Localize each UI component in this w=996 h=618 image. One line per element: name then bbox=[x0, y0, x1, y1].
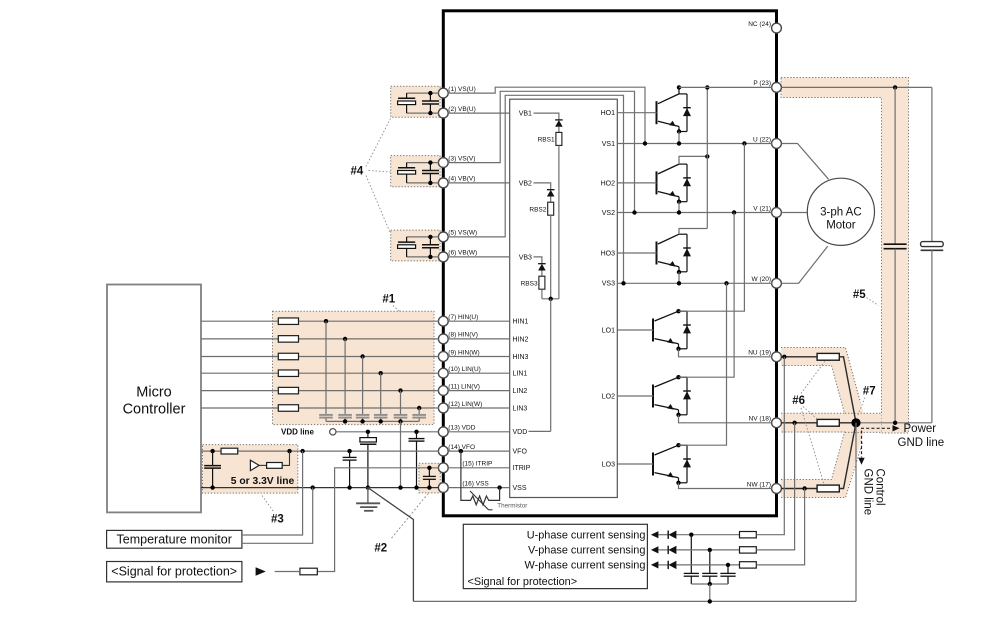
node VDD cap A tap bbox=[366, 430, 370, 434]
node GND rail junction bbox=[708, 599, 712, 603]
capacitor V sense filter bbox=[709, 550, 711, 574]
bootstrap diode D1 bbox=[555, 119, 563, 121]
svg-text:LO3: LO3 bbox=[602, 461, 615, 468]
IGBT emitter lead bbox=[678, 197, 680, 202]
svg-text:LO2: LO2 bbox=[602, 393, 615, 400]
node cap bus junction bbox=[343, 419, 347, 423]
wire VB1 to bootstrap diode bbox=[534, 113, 559, 120]
resistor shunt RV bbox=[817, 419, 839, 426]
wire VS(U) routing pin1 to VS1 bbox=[448, 87, 645, 143]
pin 12 LIN(W) bbox=[438, 403, 448, 413]
resistor R8 (VFO pull-up) bbox=[221, 448, 238, 454]
node W filter tap bbox=[726, 563, 730, 567]
svg-text:HIN3: HIN3 bbox=[513, 354, 529, 361]
node VSS cap C bbox=[347, 485, 351, 489]
IGBT collector stroke bbox=[655, 377, 679, 387]
freewheel diode bbox=[679, 310, 688, 312]
capacitor VFO filter CC bbox=[349, 451, 351, 457]
wire buffer to R9 bbox=[259, 464, 267, 466]
capacitor ceramic bootstrap bbox=[429, 93, 431, 101]
IPM package outline bbox=[443, 11, 776, 516]
wire temp monitor to VSS bbox=[242, 488, 313, 544]
wire Q3 collector up bbox=[679, 229, 707, 235]
thermistor RT1 bbox=[461, 451, 500, 505]
svg-text:Temperature monitor: Temperature monitor bbox=[117, 533, 232, 547]
IGBT emitter lead bbox=[678, 478, 680, 483]
node VDD cap B tap bbox=[414, 430, 418, 434]
pin 10 LIN(U) bbox=[438, 368, 448, 378]
wire pin8 to driver bbox=[448, 338, 510, 340]
svg-text:Thermistor: Thermistor bbox=[497, 503, 527, 510]
svg-text:NC (24): NC (24) bbox=[748, 21, 771, 28]
node Q3 emitter bbox=[677, 270, 681, 274]
wire Q2 collector up bbox=[679, 156, 707, 164]
wire sense cap bus bbox=[691, 583, 728, 585]
wire R9 up to VFO line bbox=[282, 451, 289, 465]
pin NU (19) bbox=[772, 352, 782, 362]
wire VDD line to pin 13 bbox=[336, 431, 438, 433]
wire VS2 line to V pin bbox=[617, 212, 772, 214]
node Q4 collector bbox=[676, 309, 680, 313]
wire filter cap bus bbox=[326, 420, 419, 422]
svg-text:VDD line: VDD line bbox=[281, 427, 314, 436]
node sense cap bus bbox=[708, 582, 712, 586]
wire temp monitor to VFO bbox=[242, 451, 303, 535]
svg-text:(12) LIN(W): (12) LIN(W) bbox=[448, 401, 482, 408]
wire pin7 to driver bbox=[448, 320, 510, 322]
wire LO2 bbox=[617, 395, 653, 397]
svg-text:NW (17): NW (17) bbox=[747, 481, 771, 488]
IGBT emitter stroke bbox=[658, 192, 679, 197]
wire control GND down bbox=[855, 423, 857, 602]
node ITRIP cap bottom bbox=[427, 485, 431, 489]
wire Q5 emitter to NV bbox=[679, 415, 772, 423]
IGBT emitter arrow bbox=[667, 472, 674, 478]
resistor U sense bbox=[740, 532, 757, 538]
node filter tap 2 bbox=[343, 337, 347, 341]
node bootstrap cap bottom bbox=[428, 255, 432, 259]
node VSS cap B bbox=[414, 485, 418, 489]
node V filter tap bbox=[708, 548, 712, 552]
wire sense bus to GND rail bbox=[709, 584, 711, 601]
node VS2 emitter junction bbox=[677, 210, 681, 214]
wire Q3 emitter to VS3 bbox=[678, 272, 680, 283]
wire bootstrap top bbox=[407, 92, 439, 94]
svg-text:HO2: HO2 bbox=[601, 180, 616, 187]
pin NV (18) bbox=[772, 418, 782, 428]
IGBT emitter lead bbox=[678, 127, 680, 132]
node GND star point bbox=[851, 418, 860, 427]
svg-text:Motor: Motor bbox=[826, 220, 856, 232]
bootstrap diode D3 bbox=[538, 263, 546, 265]
capacitor ceramic bootstrap bbox=[429, 163, 431, 171]
node power GND cap tap bbox=[893, 421, 897, 425]
wire bootstrap common join bbox=[542, 298, 559, 300]
box current sensing bbox=[463, 524, 647, 588]
resistor ITRIP R7 bbox=[300, 568, 317, 575]
capacitor ceramic bootstrap bbox=[429, 237, 431, 245]
wire pin13 to driver bbox=[448, 431, 510, 433]
svg-text:RBS2: RBS2 bbox=[529, 207, 546, 214]
wire bottom GND rail bbox=[413, 600, 856, 602]
wire shunt RU to star bbox=[839, 357, 856, 423]
node Q1 collector on P rail bbox=[677, 85, 681, 89]
svg-text:(2) VB(U): (2) VB(U) bbox=[448, 106, 475, 113]
freewheel diode bbox=[679, 233, 687, 235]
IGBT gate bar bbox=[652, 385, 654, 408]
pin U (22) bbox=[772, 139, 782, 149]
svg-text:#3: #3 bbox=[271, 513, 284, 525]
pin 16 VSS bbox=[438, 483, 448, 493]
wire VS(V) routing pin3 to VS2 bbox=[448, 91, 634, 212]
node Q4 emitter bbox=[676, 347, 680, 351]
svg-text:LIN2: LIN2 bbox=[513, 388, 528, 395]
node VS3 emitter junction bbox=[677, 281, 681, 285]
wire P rail bbox=[679, 86, 772, 88]
wire W sense line bbox=[676, 564, 739, 566]
IGBT emitter lead bbox=[678, 344, 680, 349]
wire W to motor bbox=[781, 246, 827, 283]
wire MC to HIN(W) bbox=[201, 356, 439, 358]
pin NW (17) bbox=[772, 484, 782, 494]
node P cap tap bbox=[893, 85, 897, 89]
capacitor input C2 bbox=[338, 414, 352, 416]
svg-text:(1) VS(U): (1) VS(U) bbox=[448, 86, 475, 93]
svg-text:VS2: VS2 bbox=[602, 210, 615, 217]
box Signal for protection (left) bbox=[107, 562, 242, 582]
wire W sense to shunt bbox=[756, 489, 804, 565]
wire bootstrap top bbox=[407, 162, 439, 164]
wire VSS line bbox=[201, 487, 439, 489]
wire RBS2 down bbox=[550, 215, 552, 299]
wire HO1 bbox=[617, 112, 656, 114]
wire U sense to shunt bbox=[756, 357, 784, 535]
wire P-rail drop bbox=[706, 87, 708, 228]
wire V to motor bbox=[781, 212, 807, 214]
svg-text:LIN3: LIN3 bbox=[513, 405, 528, 412]
svg-text:Micro: Micro bbox=[136, 385, 171, 401]
pin P (23) bbox=[772, 83, 782, 93]
IGBT gate bar bbox=[656, 242, 658, 265]
svg-text:5 or 3.3V line: 5 or 3.3V line bbox=[231, 476, 295, 487]
IGBT emitter stroke bbox=[655, 405, 679, 410]
diode U sensing bbox=[667, 531, 669, 539]
IGBT emitter arrow bbox=[667, 404, 674, 410]
pin 6 VB(W) bbox=[438, 252, 448, 262]
IGBT gate bar bbox=[652, 453, 654, 476]
node VSS bus drop bbox=[398, 485, 402, 489]
capacitor input C4 bbox=[374, 414, 388, 416]
capacitor C_bus electrolytic bbox=[931, 87, 933, 241]
svg-text:GND line: GND line bbox=[898, 437, 945, 449]
IGBT emitter stroke bbox=[658, 121, 679, 126]
wire Q1 emitter to VS1 bbox=[678, 132, 680, 144]
svg-text:VS3: VS3 bbox=[602, 281, 615, 288]
wire HO3 bbox=[617, 252, 656, 254]
wire filter tap 4 down bbox=[380, 373, 382, 414]
wire Q4 emitter to NU bbox=[679, 349, 772, 357]
callout #1 bbox=[393, 306, 401, 313]
wire LO3 bbox=[617, 463, 653, 465]
diode W sensing bbox=[667, 561, 669, 569]
highlight band #6/#7 (shunt / GND star) bbox=[781, 348, 865, 498]
node filter tap 3 bbox=[360, 354, 364, 358]
wire VB2 to bootstrap diode bbox=[534, 183, 551, 190]
wire NV to shunt bbox=[781, 422, 817, 424]
svg-text:Power: Power bbox=[904, 423, 937, 435]
wire filter tap 5 down bbox=[400, 391, 402, 414]
node thermistor VSS tap bbox=[497, 485, 501, 489]
svg-text:ITRIP: ITRIP bbox=[513, 465, 531, 472]
wire Q6 emitter to NW bbox=[679, 483, 772, 489]
node Q6 collector bbox=[676, 443, 680, 447]
capacitor C_snubber bbox=[894, 87, 896, 244]
IGBT gate bar bbox=[652, 319, 654, 342]
resistor input R2 bbox=[278, 336, 298, 343]
capacitor C3 (5V rail) bbox=[212, 451, 214, 466]
IGBT emitter stroke bbox=[655, 339, 679, 344]
svg-text:U-phase current sensing: U-phase current sensing bbox=[527, 529, 646, 541]
arrow signal for protection bbox=[256, 567, 266, 575]
wire VB(U) pin2 to driver bbox=[448, 112, 510, 114]
IGBT emitter stroke bbox=[655, 473, 679, 478]
IGBT emitter lead bbox=[678, 267, 680, 272]
wire ITRIP resistor lead bbox=[275, 571, 300, 573]
wire RBS3 down bbox=[541, 289, 543, 299]
callout #2 bbox=[392, 494, 429, 539]
freewheel diode bbox=[679, 376, 688, 378]
node Q6 emitter bbox=[676, 481, 680, 485]
wire MC to HIN(U) bbox=[201, 320, 439, 322]
wire NW to shunt bbox=[781, 488, 817, 490]
highlight box #4a (bootstrap caps U) bbox=[391, 86, 440, 117]
highlight box #4c (bootstrap caps W) bbox=[391, 230, 440, 261]
resistor input R6 bbox=[278, 405, 298, 412]
svg-text:V (21): V (21) bbox=[753, 205, 771, 212]
node bootstrap cap bottom bbox=[428, 181, 432, 185]
callout #5 bbox=[867, 298, 879, 306]
svg-text:(8) HIN(V): (8) HIN(V) bbox=[448, 332, 478, 339]
IGBT emitter arrow bbox=[669, 191, 676, 197]
node VFO cap C tap bbox=[347, 449, 351, 453]
arrow W-phase sensing bbox=[651, 561, 659, 568]
IGBT collector stroke bbox=[655, 311, 679, 321]
wire VB(V) pin4 to driver bbox=[448, 182, 510, 184]
pin W (20) bbox=[772, 278, 782, 288]
wire bootstrap top bbox=[407, 236, 439, 238]
wire pin9 to driver bbox=[448, 356, 510, 358]
svg-text:#6: #6 bbox=[792, 395, 805, 407]
node filter tap 5 bbox=[398, 388, 402, 392]
svg-text:3-ph AC: 3-ph AC bbox=[820, 206, 862, 218]
svg-text:(10) LIN(U): (10) LIN(U) bbox=[448, 366, 481, 373]
wire power GND return bbox=[856, 422, 932, 424]
svg-text:HO3: HO3 bbox=[601, 250, 616, 257]
node P-rail drop top bbox=[705, 85, 709, 89]
wire shunt RV to star bbox=[839, 422, 856, 424]
wire pin15 to driver bbox=[448, 467, 510, 469]
capacitor input C5 bbox=[394, 414, 408, 416]
svg-text:(16) VSS: (16) VSS bbox=[462, 480, 489, 487]
pin 5 VS(W) bbox=[438, 232, 448, 242]
resistor V sense bbox=[740, 547, 757, 553]
node VFO temp-monitor tap bbox=[300, 449, 304, 453]
gate driver IC box U1 bbox=[510, 99, 618, 497]
wire ITRIP line bbox=[317, 468, 438, 572]
arrow Control GND line bbox=[861, 431, 863, 458]
capacitor VDD ceramic CB bbox=[416, 432, 418, 439]
node bootstrap cap top bbox=[428, 235, 432, 239]
pin 2 VB(U) bbox=[438, 108, 448, 118]
resistor shunt RU bbox=[817, 353, 839, 360]
node NV sense tap bbox=[792, 421, 796, 425]
capacitor electrolytic bootstrap bbox=[406, 163, 408, 168]
svg-text:#1: #1 bbox=[382, 294, 395, 306]
IGBT collector stroke bbox=[658, 164, 679, 174]
node 5V cap tap bbox=[210, 449, 214, 453]
svg-text:VS1: VS1 bbox=[602, 141, 615, 148]
node cap bus junction bbox=[379, 419, 383, 423]
wire pin16 to driver bbox=[448, 487, 510, 489]
wire LO1 bbox=[617, 329, 653, 331]
wire W arrow to diode bbox=[658, 564, 668, 566]
callout #6 to shunts bbox=[801, 361, 825, 394]
arrow Power GND line bbox=[861, 427, 892, 429]
wire V sense to shunt bbox=[756, 423, 794, 550]
wire VS1 line to U pin bbox=[617, 143, 772, 145]
node Q1 emitter bbox=[677, 129, 681, 133]
wire pin14 to driver bbox=[448, 450, 510, 452]
svg-text:VB1: VB1 bbox=[519, 111, 532, 118]
wire VB3 to bootstrap diode bbox=[534, 257, 542, 264]
pin 13 VDD bbox=[438, 427, 448, 437]
wire MC to LIN(W) bbox=[201, 407, 439, 409]
wire Q4 collector to VS1 bbox=[679, 144, 745, 312]
wire Q5 collector to VS2 bbox=[679, 213, 735, 378]
arrow U-phase sensing bbox=[651, 531, 659, 538]
wire Q1 collector to P rail bbox=[678, 87, 680, 94]
node bootstrap cap bottom bbox=[428, 111, 432, 115]
svg-text:VDD: VDD bbox=[513, 429, 528, 436]
wire VSS to bottom rail bbox=[368, 488, 414, 602]
wire filter tap 3 down bbox=[362, 357, 364, 415]
motor M1 (3-ph AC Motor) bbox=[807, 178, 874, 245]
node VS2 low-side junction bbox=[732, 210, 736, 214]
callout #3 bbox=[262, 496, 274, 512]
node Q2 emitter bbox=[677, 200, 681, 204]
wire pin10 to driver bbox=[448, 372, 510, 374]
svg-text:HIN2: HIN2 bbox=[513, 336, 529, 343]
terminal VDD line bbox=[330, 429, 336, 435]
pin 4 VB(V) bbox=[438, 178, 448, 188]
svg-text:W-phase current sensing: W-phase current sensing bbox=[525, 560, 646, 572]
capacitor U sense filter bbox=[690, 535, 692, 574]
node R9 join bbox=[287, 449, 291, 453]
svg-text:GND line: GND line bbox=[862, 469, 874, 516]
freewheel diode bbox=[679, 444, 688, 446]
node filter tap 4 bbox=[379, 371, 383, 375]
svg-text:W (20): W (20) bbox=[752, 276, 772, 283]
resistor input R5 bbox=[278, 387, 298, 394]
wire cap bus to VSS bbox=[400, 421, 402, 487]
node VS2 bootstrap junction bbox=[632, 210, 636, 214]
capacitor electrolytic bootstrap bbox=[406, 93, 408, 98]
svg-text:#2: #2 bbox=[374, 543, 387, 555]
wire bootstrap bottom bbox=[407, 112, 439, 114]
node thermistor VFO tap bbox=[459, 449, 463, 453]
bootstrap diode D2 bbox=[547, 189, 555, 191]
capacitor electrolytic bootstrap bbox=[406, 237, 408, 242]
resistor R9 bbox=[267, 463, 283, 469]
IGBT gate bar bbox=[656, 101, 658, 124]
node VS3 low-side junction bbox=[724, 281, 728, 285]
svg-text:(13) VDD: (13) VDD bbox=[448, 425, 475, 432]
pin V (21) bbox=[772, 208, 782, 218]
pin 15 ITRIP bbox=[438, 463, 448, 473]
wire MC to LIN(U) bbox=[201, 372, 439, 374]
IGBT emitter stroke bbox=[658, 262, 679, 267]
svg-text:#7: #7 bbox=[863, 386, 876, 398]
wire filter tap 1 down bbox=[325, 321, 327, 414]
wire filter tap 2 down bbox=[344, 339, 346, 414]
highlight box #4b (bootstrap caps V) bbox=[391, 156, 440, 187]
svg-text:Control: Control bbox=[874, 469, 886, 506]
svg-text:(3) VS(V): (3) VS(V) bbox=[448, 155, 475, 162]
svg-text:(5) VS(W): (5) VS(W) bbox=[448, 230, 477, 237]
svg-text:(15) ITRIP: (15) ITRIP bbox=[462, 461, 492, 468]
IGBT collector stroke bbox=[655, 445, 679, 455]
node Q5 emitter bbox=[676, 413, 680, 417]
node VS3 bootstrap junction bbox=[621, 281, 625, 285]
box Temperature monitor bbox=[107, 530, 242, 548]
IGBT emitter arrow bbox=[667, 338, 674, 344]
svg-text:(9) HIN(W): (9) HIN(W) bbox=[448, 349, 479, 356]
svg-text:(11) LIN(V): (11) LIN(V) bbox=[448, 383, 480, 390]
node filter tap 1 bbox=[324, 319, 328, 323]
svg-text:LIN1: LIN1 bbox=[513, 371, 528, 378]
wire V arrow to diode bbox=[658, 549, 668, 551]
node VSS temp tap bbox=[311, 485, 315, 489]
buffer symbol 5V source bbox=[250, 460, 259, 470]
node Q5 collector bbox=[676, 375, 680, 379]
node C3 bottom bbox=[210, 485, 214, 489]
svg-text:HO1: HO1 bbox=[601, 110, 616, 117]
IGBT emitter arrow bbox=[669, 121, 676, 127]
pin 3 VS(V) bbox=[438, 158, 448, 168]
wire VS3 line to W pin bbox=[617, 282, 772, 284]
svg-text:RBS1: RBS1 bbox=[538, 137, 555, 144]
freewheel diode bbox=[679, 163, 687, 165]
wire U to motor bbox=[781, 144, 828, 180]
IGBT collector stroke bbox=[658, 234, 679, 244]
wire U arrow to diode bbox=[658, 534, 668, 536]
node bootstrap cap top bbox=[428, 91, 432, 95]
node cap bus junction bbox=[360, 419, 364, 423]
wire VB(W) pin6 to driver bbox=[448, 256, 510, 258]
pin 7 HIN(U) bbox=[438, 316, 448, 326]
ground bbox=[367, 488, 369, 504]
freewheel diode bbox=[679, 93, 687, 95]
wire U sense line bbox=[676, 534, 739, 536]
highlight box #2 (ITRIP cap) bbox=[419, 463, 440, 493]
wire common to VDD bbox=[550, 299, 552, 432]
wire NU to shunt bbox=[781, 356, 817, 358]
svg-text:VB2: VB2 bbox=[519, 180, 532, 187]
pin 11 LIN(V) bbox=[438, 386, 448, 396]
svg-text:VB3: VB3 bbox=[519, 254, 532, 261]
IGBT emitter lead bbox=[678, 410, 680, 415]
svg-text:(7) HIN(U): (7) HIN(U) bbox=[448, 314, 478, 321]
